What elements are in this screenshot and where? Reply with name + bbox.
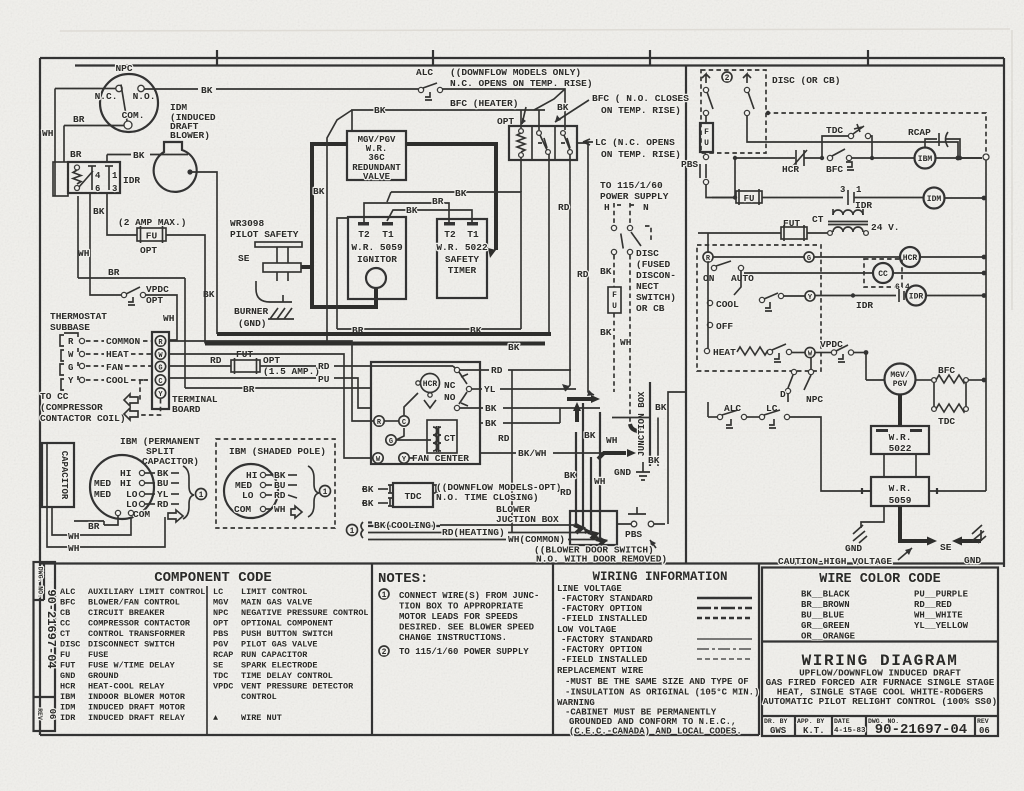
push button PBS left — [681, 154, 709, 184]
svg-text:NC: NC — [444, 380, 456, 391]
svg-text:BR: BR — [70, 149, 82, 160]
wire limit right down (RD) — [577, 143, 594, 395]
svg-text:HEAT-COOL RELAY: HEAT-COOL RELAY — [88, 682, 165, 692]
svg-text:-CABINET MUST BE PERMANENTLY: -CABINET MUST BE PERMANENTLY — [565, 708, 717, 718]
svg-text:BFC: BFC — [60, 598, 75, 608]
wire BK from NO — [460, 407, 483, 409]
label DISC fused disconnect — [636, 248, 676, 314]
svg-text:TIME DELAY CONTROL: TIME DELAY CONTROL — [241, 671, 333, 681]
svg-text:T2: T2 — [358, 229, 370, 240]
svg-text:AUTOMATIC PILOT RELIGHT CONTRO: AUTOMATIC PILOT RELIGHT CONTROL (100% SS… — [763, 696, 997, 707]
svg-text:-FACTORY STANDARD: -FACTORY STANDARD — [561, 594, 653, 604]
svg-text:BK: BK — [557, 102, 569, 113]
svg-text:MAIN GAS VALVE: MAIN GAS VALVE — [241, 598, 312, 608]
svg-text:U: U — [704, 139, 709, 148]
svg-text:DISC: DISC — [636, 248, 659, 259]
wire WH vertical — [54, 89, 56, 197]
svg-text:LOW VOLTAGE: LOW VOLTAGE — [557, 625, 617, 635]
wire from DISC N to bus — [747, 116, 958, 157]
wire BK T1-T1 — [387, 210, 472, 223]
svg-text:DISCONNECT SWITCH: DISCONNECT SWITCH — [88, 640, 175, 650]
svg-text:U: U — [612, 302, 617, 311]
svg-text:DISC (OR CB): DISC (OR CB) — [772, 75, 840, 86]
svg-text:24 V.: 24 V. — [871, 222, 900, 233]
svg-text:CT: CT — [812, 214, 824, 225]
paper scan streaks — [1011, 30, 1013, 310]
wire WH capacitor bus — [47, 507, 165, 547]
svg-text:BK: BK — [584, 430, 596, 441]
svg-text:IDR: IDR — [60, 713, 76, 723]
svg-text:36C: 36C — [368, 153, 385, 163]
wire BK MGV top — [352, 110, 545, 131]
svg-text:TION BOX TO APPROPRIATE: TION BOX TO APPROPRIATE — [399, 602, 524, 612]
svg-text:PBS: PBS — [625, 529, 642, 540]
note 1 cooling/heating/common lines — [347, 520, 605, 546]
svg-text:IDR: IDR — [123, 175, 140, 186]
svg-text:RCAP: RCAP — [908, 127, 931, 138]
svg-text:MED: MED — [94, 478, 111, 489]
svg-text:FU: FU — [60, 650, 70, 660]
wire BR vertical from relay area — [77, 196, 79, 278]
left bus inside thermostat — [707, 262, 709, 351]
svg-text:TDC: TDC — [826, 125, 843, 136]
svg-text:THERMOSTAT: THERMOSTAT — [50, 311, 107, 322]
svg-text:BK: BK — [564, 470, 576, 481]
svg-text:N: N — [643, 202, 649, 213]
motor IBM right — [915, 148, 936, 169]
svg-text:OPTIONAL COMPONENT: OPTIONAL COMPONENT — [241, 619, 333, 629]
svg-text:BK: BK — [313, 186, 325, 197]
limit control cluster OPT/BFC/LC — [497, 116, 577, 160]
svg-text:GND: GND — [60, 671, 75, 681]
svg-text:RD: RD — [274, 490, 286, 501]
svg-text:DWG. NO.: DWG. NO. — [37, 567, 44, 598]
svg-text:GROUNDED AND CONFORM TO N.E.C.: GROUNDED AND CONFORM TO N.E.C., — [569, 717, 736, 727]
transformer CT in fan center — [427, 420, 457, 453]
svg-text:-FACTORY OPTION: -FACTORY OPTION — [561, 645, 642, 655]
svg-text:VPDC: VPDC — [213, 682, 233, 692]
svg-text:FU: FU — [744, 194, 755, 204]
svg-text:BU: BU — [157, 478, 169, 489]
svg-text:90-21697-04: 90-21697-04 — [44, 589, 58, 668]
motor IBM shaded pole (dashed option box) — [216, 439, 335, 528]
terminal Y — [399, 453, 409, 463]
border tick marks — [217, 50, 868, 66]
svg-text:BK: BK — [201, 85, 213, 96]
thick arrow BK/WH into junction box — [598, 453, 626, 459]
motor IDM right — [924, 188, 945, 209]
wire BK dashed w/ fuse FU — [613, 255, 615, 287]
thick wire MGV right down — [406, 144, 496, 250]
svg-text:BFC: BFC — [938, 365, 955, 376]
svg-text:HEAT: HEAT — [106, 349, 129, 360]
svg-text:GND: GND — [614, 467, 631, 478]
switch VPDC OPT — [121, 284, 169, 306]
wire PBS to rows — [706, 185, 735, 198]
svg-text:4-15-83: 4-15-83 — [834, 727, 866, 735]
thick bus y334 — [217, 332, 551, 336]
wire BFC bottom down (BK) — [548, 154, 550, 334]
svg-text:IDM: IDM — [60, 703, 75, 713]
transformer CT 24V — [698, 209, 900, 241]
svg-text:OPT: OPT — [263, 355, 280, 366]
switch ON/AUTO — [703, 261, 754, 295]
svg-text:CC: CC — [878, 270, 888, 279]
svg-text:COMPONENT CODE: COMPONENT CODE — [154, 570, 272, 586]
thick arrow into junction y399 — [567, 397, 594, 401]
svg-text:G: G — [68, 363, 73, 373]
svg-text:COOL: COOL — [106, 375, 129, 386]
svg-text:PU__PURPLE: PU__PURPLE — [914, 590, 969, 600]
svg-text:RCAP: RCAP — [213, 650, 233, 660]
svg-text:WIRE NUT: WIRE NUT — [241, 713, 282, 723]
svg-text:VALVE: VALVE — [363, 172, 391, 182]
svg-text:BK: BK — [508, 342, 520, 353]
svg-text:BLOWER/FAN CONTROL: BLOWER/FAN CONTROL — [88, 598, 180, 608]
contact IDR 6-4 + relay IDR right — [815, 283, 986, 311]
svg-text:WH: WH — [163, 313, 175, 324]
svg-text:BFC: BFC — [826, 164, 843, 175]
wire BK top (NPC to ALC) — [144, 88, 198, 90]
bottom table frame — [40, 564, 998, 737]
svg-text:(1.5 AMP.): (1.5 AMP.) — [263, 366, 320, 377]
svg-text:GND: GND — [845, 543, 862, 554]
wire bus to 5059 — [937, 490, 986, 492]
svg-text:MGV: MGV — [213, 598, 229, 608]
svg-text:SE: SE — [238, 253, 250, 264]
wire BR horizontal — [78, 277, 185, 279]
wire BK IDR pin1 to IDM blower — [106, 155, 108, 163]
contact HCR — [735, 150, 824, 175]
svg-text:BLOWER): BLOWER) — [170, 130, 210, 141]
svg-text:HI: HI — [120, 478, 131, 489]
svg-text:G: G — [807, 255, 811, 263]
svg-text:HCR: HCR — [782, 164, 799, 175]
terminal R right — [703, 252, 713, 262]
svg-text:CT: CT — [444, 433, 456, 444]
svg-text:WARNING: WARNING — [557, 698, 595, 708]
svg-text:LC (N.C. OPENS: LC (N.C. OPENS — [595, 137, 675, 148]
svg-text:RD: RD — [491, 365, 503, 376]
thick arrow YL up — [575, 408, 579, 422]
svg-text:DATE: DATE — [834, 718, 850, 725]
svg-text:FUT: FUT — [60, 661, 75, 671]
svg-text:YL__YELLOW: YL__YELLOW — [914, 621, 969, 631]
svg-text:DISC: DISC — [60, 640, 80, 650]
svg-text:RD: RD — [558, 202, 570, 213]
svg-text:N.C. OPENS ON TEMP. RISE): N.C. OPENS ON TEMP. RISE) — [450, 78, 593, 89]
svg-text:SE: SE — [213, 661, 223, 671]
switch HEAT w/ resistor — [704, 344, 791, 362]
IDM induced draft blower — [154, 102, 216, 192]
module W.R.5022 right — [871, 426, 929, 454]
fuse FU right panel — [700, 123, 713, 152]
svg-text:BOARD: BOARD — [172, 404, 201, 415]
svg-text:CT: CT — [60, 629, 70, 639]
valve MGV/PGV right — [866, 364, 916, 395]
svg-text:PGV: PGV — [893, 380, 908, 389]
svg-text:HCR: HCR — [903, 254, 918, 263]
wire BK ALC to LC — [442, 89, 565, 130]
svg-text:2: 2 — [382, 648, 387, 657]
svg-text:BK: BK — [374, 105, 386, 116]
svg-text:NPC: NPC — [806, 394, 823, 405]
svg-text:GND: GND — [964, 555, 981, 566]
svg-text:YL: YL — [484, 384, 496, 395]
svg-text:4: 4 — [95, 171, 101, 181]
resistor BFC right — [916, 365, 987, 383]
svg-text:R: R — [68, 337, 74, 347]
svg-text:COMMON: COMMON — [106, 336, 141, 347]
svg-text:PU: PU — [318, 374, 330, 385]
svg-text:W.R. 5022: W.R. 5022 — [436, 242, 488, 253]
svg-text:IDR: IDR — [909, 293, 924, 302]
svg-text:N.C.: N.C. — [95, 91, 118, 102]
svg-text:CONTROL: CONTROL — [241, 692, 277, 702]
svg-text:DISCON-: DISCON- — [636, 270, 676, 281]
thick wire MGV to 5022 — [898, 395, 902, 427]
wire BK from fan box right — [480, 422, 483, 424]
svg-text:-FACTORY OPTION: -FACTORY OPTION — [561, 604, 642, 614]
motor lead labels BK BU YL RD — [145, 466, 207, 522]
dashed wire DISC to right bus — [766, 113, 986, 152]
svg-text:MOTOR LEADS FOR SPEEDS: MOTOR LEADS FOR SPEEDS — [399, 612, 518, 622]
svg-text:(C.E.C.-CANADA) AND LOCAL CODE: (C.E.C.-CANADA) AND LOCAL CODES. — [569, 727, 742, 737]
svg-text:PBS: PBS — [213, 629, 228, 639]
wires 5022 to 5059 — [883, 454, 885, 477]
svg-text:BR: BR — [432, 196, 444, 207]
svg-text:INDUCED DRAFT MOTOR: INDUCED DRAFT MOTOR — [88, 703, 186, 713]
svg-text:AUXILIARY LIMIT CONTROL: AUXILIARY LIMIT CONTROL — [88, 587, 205, 597]
svg-text:INDUCED DRAFT RELAY: INDUCED DRAFT RELAY — [88, 713, 186, 723]
wire BK/WH — [480, 452, 516, 454]
svg-text:(GND): (GND) — [238, 318, 267, 329]
disconnect DISC (OR CB) dashed box — [701, 70, 840, 153]
svg-text:RD: RD — [560, 487, 572, 498]
svg-text:(COMPRESSOR: (COMPRESSOR — [40, 402, 103, 413]
svg-text:C: C — [402, 419, 406, 427]
fuse FU row 197 — [712, 189, 843, 205]
svg-text:BR: BR — [108, 267, 120, 278]
svg-text:SE: SE — [940, 542, 952, 553]
svg-text:INDOOR BLOWER MOTOR: INDOOR BLOWER MOTOR — [88, 692, 186, 702]
svg-text:BR: BR — [73, 114, 85, 125]
junction box boundary — [649, 382, 651, 466]
terminal G right — [804, 252, 814, 262]
thick arrow from right gnd to SE — [962, 539, 981, 543]
svg-text:BK: BK — [600, 327, 612, 338]
svg-text:CAPACITOR: CAPACITOR — [59, 451, 69, 500]
thick stub to spark electrode — [301, 265, 312, 269]
TO CC compressor contactor coil — [40, 380, 161, 424]
wire BR to fan center — [185, 387, 371, 389]
svg-text:F: F — [704, 128, 709, 137]
svg-text:AUTO: AUTO — [731, 273, 754, 284]
svg-text:WH: WH — [620, 337, 632, 348]
relay coil HCR right — [900, 247, 920, 267]
svg-text:SPARK ELECTRODE: SPARK ELECTRODE — [241, 661, 318, 671]
contact IDR 3-1 — [840, 185, 923, 211]
svg-text:JUNCTION BOX: JUNCTION BOX — [637, 391, 647, 456]
fuse FU (2 AMP) — [118, 217, 186, 256]
svg-text:MED: MED — [94, 489, 111, 500]
svg-text:BK(COOLING): BK(COOLING) — [374, 520, 437, 531]
svg-text:MGV/: MGV/ — [890, 371, 909, 380]
svg-text:WR3098: WR3098 — [230, 218, 265, 229]
svg-text:CONNECT WIRE(S) FROM JUNC-: CONNECT WIRE(S) FROM JUNC- — [399, 591, 539, 601]
svg-text:RD(HEATING): RD(HEATING) — [442, 527, 505, 538]
svg-text:IBM: IBM — [918, 155, 933, 164]
switch NC/NO in fan center — [444, 367, 472, 410]
wire BK vertical left of valve — [534, 89, 565, 110]
svg-text:HCR: HCR — [423, 380, 438, 389]
motor IBM permanent split capacitor — [90, 436, 200, 520]
svg-text:POWER SUPPLY: POWER SUPPLY — [600, 191, 669, 202]
svg-text:REV: REV — [977, 718, 989, 725]
switch COOL — [707, 293, 783, 311]
svg-text:G: G — [389, 438, 393, 446]
svg-text:5022: 5022 — [889, 443, 912, 454]
svg-text:BR: BR — [88, 521, 100, 532]
svg-text:ALC: ALC — [60, 587, 75, 597]
svg-text:1: 1 — [112, 171, 118, 181]
svg-text:GROUND: GROUND — [88, 671, 119, 681]
svg-text:OFF: OFF — [716, 321, 733, 332]
hook arrow WH into junction — [630, 424, 638, 431]
relay IDR — [53, 149, 140, 196]
capacitor — [42, 443, 74, 507]
svg-text:WH__WHITE: WH__WHITE — [914, 611, 963, 621]
wires inside fan center — [384, 420, 399, 422]
svg-text:NEGATIVE PRESSURE CONTROL: NEGATIVE PRESSURE CONTROL — [241, 608, 369, 618]
svg-text:IGNITOR: IGNITOR — [357, 254, 397, 265]
svg-text:-FIELD INSTALLED: -FIELD INSTALLED — [561, 655, 648, 665]
wire LC bottom down (RD) — [565, 154, 570, 391]
svg-text:1: 1 — [856, 185, 862, 195]
svg-text:ON: ON — [703, 273, 715, 284]
terminal G — [386, 435, 396, 445]
wire PU from C — [169, 377, 316, 379]
svg-text:WH: WH — [78, 248, 90, 259]
svg-text:ALC: ALC — [416, 67, 433, 78]
wires ALC LC right — [708, 402, 871, 491]
timer TDC (downflow opt) — [362, 482, 561, 509]
terminal Y right — [805, 291, 815, 301]
wires down into blower junction box — [576, 432, 581, 527]
svg-text:BK: BK — [485, 403, 497, 414]
svg-text:BK: BK — [455, 188, 467, 199]
svg-text:DESIRED. SEE BLOWER SPEED: DESIRED. SEE BLOWER SPEED — [399, 623, 535, 633]
svg-text:1: 1 — [323, 488, 328, 497]
svg-text:ON TEMP. RISE): ON TEMP. RISE) — [601, 105, 681, 116]
svg-text:D: D — [780, 389, 786, 400]
svg-text:BK: BK — [133, 150, 145, 161]
svg-text:IDM: IDM — [927, 195, 942, 204]
svg-text:FAN CENTER: FAN CENTER — [412, 453, 469, 464]
wire heater bottom to BK192 — [520, 157, 522, 192]
svg-text:LINE VOLTAGE: LINE VOLTAGE — [557, 584, 622, 594]
svg-text:IBM (SHADED POLE): IBM (SHADED POLE) — [229, 446, 326, 457]
svg-text:N.O. TIME CLOSING): N.O. TIME CLOSING) — [436, 492, 539, 503]
svg-text:REPLACEMENT WIRE: REPLACEMENT WIRE — [557, 666, 644, 676]
svg-text:N.O. WITH DOOR REMOVED): N.O. WITH DOOR REMOVED) — [536, 554, 667, 565]
contact BFC branch — [826, 149, 915, 175]
svg-text:W: W — [68, 350, 74, 360]
contactor CC in dashed box — [744, 259, 986, 287]
svg-text:3: 3 — [112, 184, 117, 194]
dwg number side strip — [34, 562, 56, 731]
svg-text:BFC ( N.O. CLOSES: BFC ( N.O. CLOSES — [592, 93, 689, 104]
burner — [234, 281, 294, 329]
line style samples — [697, 598, 752, 659]
thick bus y343.5 — [205, 342, 545, 346]
svg-text:W.R. 5059: W.R. 5059 — [351, 242, 403, 253]
svg-text:WH: WH — [594, 476, 606, 487]
svg-text:TO 115/1/60 POWER SUPPLY: TO 115/1/60 POWER SUPPLY — [399, 647, 529, 657]
switch PBS blower door — [617, 507, 665, 548]
svg-text:(FUSED: (FUSED — [636, 259, 671, 270]
svg-text:FUSE W/TIME DELAY: FUSE W/TIME DELAY — [88, 661, 176, 671]
svg-text:3: 3 — [840, 185, 845, 195]
svg-text:BK: BK — [406, 205, 418, 216]
svg-text:IBM: IBM — [60, 692, 75, 702]
svg-text:5059: 5059 — [889, 495, 912, 506]
svg-text:1: 1 — [382, 591, 387, 600]
svg-text:PILOT SAFETY: PILOT SAFETY — [230, 229, 299, 240]
svg-text:OR__ORANGE: OR__ORANGE — [801, 632, 856, 642]
terminal board — [152, 332, 218, 415]
svg-text:BURNER: BURNER — [234, 306, 269, 317]
svg-text:FUSE: FUSE — [88, 650, 108, 660]
switch NPC right — [780, 357, 823, 405]
svg-text:SAFETY: SAFETY — [445, 254, 480, 265]
svg-text:H: H — [604, 202, 610, 213]
svg-text:BK__BLACK: BK__BLACK — [801, 590, 850, 600]
wire FU right then down — [166, 235, 205, 344]
svg-text:JUCTION BOX: JUCTION BOX — [496, 514, 559, 525]
wire YL — [472, 388, 482, 390]
safety timer W.R.5022 — [436, 219, 488, 298]
svg-text:OPT: OPT — [140, 245, 157, 256]
svg-text:RD: RD — [157, 499, 169, 510]
svg-text:VENT PRESSURE DETECTOR: VENT PRESSURE DETECTOR — [241, 682, 354, 692]
power supply 115/1/60 dashed — [600, 180, 669, 255]
terminal W — [373, 453, 383, 463]
svg-text:1: 1 — [199, 491, 204, 500]
svg-text:CHANGE INSTRUCTIONS.: CHANGE INSTRUCTIONS. — [399, 633, 507, 643]
wire bundle BR/BK y329 — [337, 328, 521, 330]
wire BR down to C row — [184, 278, 186, 388]
svg-text:WH: WH — [274, 504, 286, 515]
terminal C — [399, 416, 409, 426]
svg-text:-FIELD INSTALLED: -FIELD INSTALLED — [561, 614, 648, 624]
svg-text:RUN CAPACITOR: RUN CAPACITOR — [241, 650, 308, 660]
wire BK IDR pin3 down to FU — [107, 193, 137, 235]
relay HCR in fan center — [416, 374, 440, 409]
svg-text:▲: ▲ — [213, 713, 219, 723]
svg-text:N.O.: N.O. — [133, 91, 156, 102]
svg-text:WH(COMMON): WH(COMMON) — [508, 534, 565, 545]
svg-text:W.R.: W.R. — [889, 483, 912, 494]
wire BR capacitor to COM — [74, 520, 104, 522]
thermostat dashed box right — [697, 245, 821, 371]
svg-text:RD: RD — [498, 433, 510, 444]
svg-text:HEAT: HEAT — [713, 347, 736, 358]
terminal R — [374, 416, 384, 426]
svg-text:BR__BROWN: BR__BROWN — [801, 600, 850, 610]
svg-text:BK: BK — [93, 206, 105, 217]
ground in junction box — [614, 462, 650, 480]
